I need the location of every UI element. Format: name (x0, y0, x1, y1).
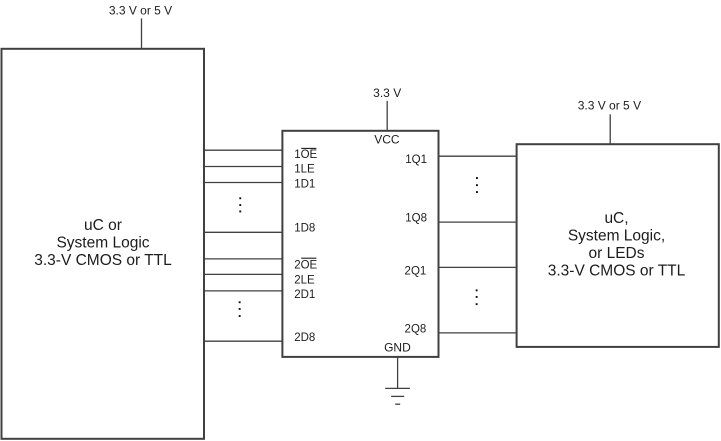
svg-text:1OE: 1OE (294, 149, 317, 161)
svg-text:3.3-V CMOS or TTL: 3.3-V CMOS or TTL (548, 263, 686, 280)
svg-text:1D8: 1D8 (294, 222, 315, 234)
svg-text:3.3-V CMOS or TTL: 3.3-V CMOS or TTL (34, 252, 172, 269)
svg-text:VCC: VCC (374, 132, 400, 146)
svg-text:1D1: 1D1 (294, 178, 315, 190)
svg-text:GND: GND (384, 340, 411, 354)
svg-text:3.3 V or 5 V: 3.3 V or 5 V (109, 4, 172, 18)
svg-text:1Q8: 1Q8 (405, 213, 427, 225)
svg-text:2D1: 2D1 (294, 289, 315, 301)
svg-text:uC,: uC, (604, 210, 628, 227)
svg-text:2Q1: 2Q1 (405, 266, 427, 278)
svg-text:2OE: 2OE (294, 260, 317, 272)
svg-text:System Logic: System Logic (56, 235, 149, 252)
svg-text:3.3 V or 5 V: 3.3 V or 5 V (578, 98, 641, 112)
svg-text:1LE: 1LE (294, 164, 315, 176)
svg-text:2D8: 2D8 (294, 332, 315, 344)
svg-text:1Q1: 1Q1 (405, 154, 427, 166)
svg-text:System Logic,: System Logic, (568, 227, 665, 244)
svg-text:2Q8: 2Q8 (405, 323, 427, 335)
svg-text:uC or: uC or (84, 217, 122, 234)
svg-text:3.3 V: 3.3 V (373, 86, 401, 100)
svg-text:2LE: 2LE (294, 275, 315, 287)
svg-text:or LEDs: or LEDs (589, 245, 645, 262)
